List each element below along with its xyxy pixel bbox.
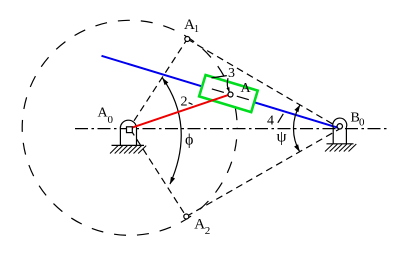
crank 2 (red line A0-A) — [130, 94, 230, 128]
svg-text:A: A — [241, 81, 252, 96]
leader for label 3 to slider — [212, 76, 227, 78]
fixed pivot A0: dome bracket — [120, 120, 136, 129]
node B0 (round pin) — [337, 124, 342, 129]
phi arc (crank swing angle) — [163, 78, 182, 184]
fixed pivot A0: pedestal left side — [119, 130, 121, 146]
crank circle (dashed path of point A) — [22, 20, 237, 235]
psi arc arrowhead top — [294, 105, 300, 113]
svg-text:0: 0 — [359, 117, 365, 129]
wire A0-A2 (dashed crank extreme position) — [131, 130, 187, 217]
svg-text:ψ: ψ — [277, 129, 287, 146]
svg-text:1: 1 — [194, 24, 199, 35]
leader for label 4 — [278, 114, 284, 123]
wire A1-B0 (dashed rocker extreme position) — [187, 39, 339, 128]
fixed pivot B0: dome bracket — [333, 118, 347, 127]
psi arc (rocker swing angle) — [293, 105, 299, 152]
centerline A0-B0 (dash-dot) — [75, 128, 390, 130]
wire A0-A1 (dashed crank extreme position) — [134, 39, 187, 121]
svg-text:2: 2 — [205, 225, 211, 237]
slot axis inside slider (dashed) — [203, 86, 253, 101]
leader for label 2 — [189, 103, 193, 105]
fixed pivot B0: hatching — [325, 144, 356, 152]
node A (revolute joint marker) — [228, 92, 233, 97]
svg-text:4: 4 — [267, 114, 274, 129]
psi arc arrowhead bottom — [294, 144, 300, 152]
node A2 marker — [184, 214, 189, 219]
fixed pivot A0: ground line — [112, 144, 145, 146]
fixed pivot B0: pedestal right side — [345, 127, 347, 144]
phi arc arrowhead bottom — [170, 177, 175, 185]
node A1 marker — [185, 37, 190, 42]
link 4 (blue rocker line) — [102, 56, 340, 129]
svg-text:2: 2 — [181, 95, 188, 110]
fixed pivot B0: ground line — [327, 143, 354, 145]
svg-text:3: 3 — [228, 66, 235, 81]
leader for label 3 to node A — [227, 78, 229, 92]
node A0 (square pin) — [127, 127, 133, 133]
slider block 3 (green rectangle, white filled) — [199, 75, 258, 112]
fixed pivot A0: pedestal right side — [136, 129, 138, 146]
svg-text:0: 0 — [108, 114, 114, 126]
svg-text:ϕ: ϕ — [185, 132, 193, 149]
phi arc arrowhead top — [162, 78, 168, 86]
wire A2-B0 (dashed rocker extreme position) — [186, 129, 339, 217]
fixed pivot A0: hatching — [110, 146, 146, 154]
fixed pivot B0: pedestal left side — [332, 128, 334, 144]
svg-text:A: A — [194, 217, 205, 233]
